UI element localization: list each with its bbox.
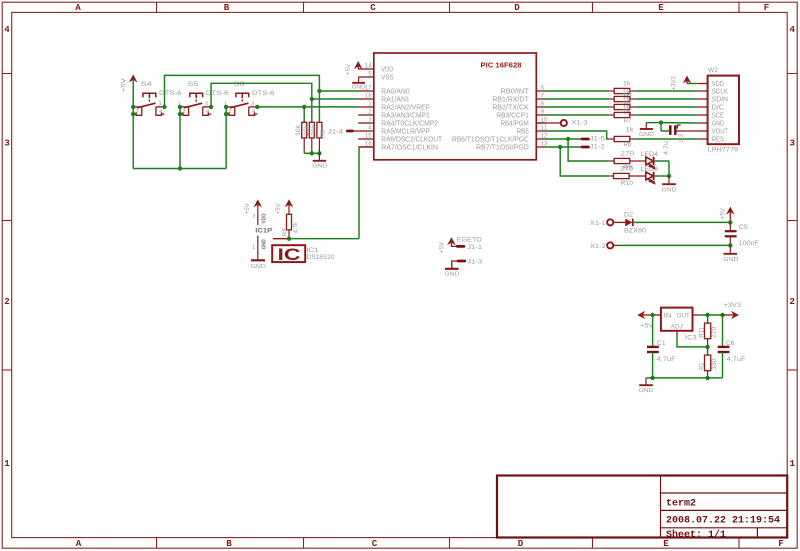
svg-text:DTS-6: DTS-6 <box>206 90 229 97</box>
svg-text:R6: R6 <box>624 142 632 149</box>
svg-text:14: 14 <box>365 64 373 70</box>
svg-text:10k: 10k <box>295 124 302 136</box>
svg-text:C: C <box>372 538 378 549</box>
svg-text:term2: term2 <box>666 499 696 510</box>
svg-text:W2: W2 <box>708 67 718 74</box>
svg-text:3: 3 <box>205 101 208 107</box>
svg-text:2: 2 <box>182 109 185 115</box>
svg-text:2: 2 <box>790 296 796 307</box>
svg-text:C5: C5 <box>739 224 748 231</box>
svg-text:4,7u: 4,7u <box>663 140 670 155</box>
svg-text:GND: GND <box>262 239 268 249</box>
svg-text:IC1P: IC1P <box>255 227 273 234</box>
svg-text:GND: GND <box>444 271 459 277</box>
svg-text:4: 4 <box>790 24 796 35</box>
svg-text:Sheet: 1/1: Sheet: 1/1 <box>666 529 726 541</box>
svg-text:RA0/AN0: RA0/AN0 <box>381 88 409 95</box>
svg-text:RB1/RX/DT: RB1/RX/DT <box>492 96 529 103</box>
svg-text:10k: 10k <box>310 124 317 136</box>
svg-text:3: 3 <box>158 101 161 107</box>
svg-text:IC: IC <box>278 245 301 264</box>
svg-text:VOUT: VOUT <box>712 128 729 135</box>
svg-text:2: 2 <box>136 109 139 115</box>
svg-text:RA4/T0CLK/CMP2: RA4/T0CLK/CMP2 <box>381 120 438 127</box>
svg-text:1: 1 <box>790 458 796 469</box>
svg-text:1k: 1k <box>623 96 632 103</box>
svg-text:B: B <box>226 538 232 549</box>
svg-text:17: 17 <box>365 86 373 92</box>
svg-text:R1: R1 <box>699 362 706 370</box>
svg-text:RB4/PGM: RB4/PGM <box>500 120 528 127</box>
svg-text:GND: GND <box>723 257 738 263</box>
svg-text:RA5/MCLR/VPP: RA5/MCLR/VPP <box>381 128 430 135</box>
svg-text:4,7k: 4,7k <box>292 221 299 233</box>
svg-text:VSS: VSS <box>381 74 393 81</box>
svg-text:+5V: +5V <box>120 77 127 92</box>
svg-text:B: B <box>224 2 230 13</box>
svg-text:100nF: 100nF <box>739 240 759 247</box>
svg-text:DTS-6: DTS-6 <box>252 90 275 97</box>
svg-text:10k: 10k <box>303 124 310 136</box>
svg-text:C: C <box>370 2 376 13</box>
svg-text:1k: 1k <box>623 80 632 87</box>
svg-text:EGETO: EGETO <box>457 236 482 243</box>
svg-text:330: 330 <box>711 358 718 370</box>
svg-text:2008.07.22 21:19:54: 2008.07.22 21:19:54 <box>666 516 780 527</box>
svg-text:S4: S4 <box>141 81 152 88</box>
svg-text:J1-2: J1-2 <box>590 144 605 151</box>
svg-text:E: E <box>658 2 664 13</box>
svg-text:IC1: IC1 <box>307 247 319 254</box>
svg-text:IN: IN <box>664 312 672 319</box>
svg-text:1: 1 <box>4 458 10 469</box>
svg-text:R8: R8 <box>282 228 289 236</box>
svg-text:X1-1: X1-1 <box>590 220 606 227</box>
svg-text:2: 2 <box>4 296 10 307</box>
svg-text:RB5: RB5 <box>517 128 529 135</box>
svg-text:DTS-6: DTS-6 <box>159 90 182 97</box>
svg-text:RES: RES <box>712 136 724 143</box>
svg-text:3: 3 <box>252 214 255 220</box>
svg-text:1k: 1k <box>625 127 634 134</box>
svg-text:GND: GND <box>662 187 677 193</box>
svg-text:RA1/AN1: RA1/AN1 <box>381 96 409 103</box>
svg-text:RB7/T1OSI/PGD: RB7/T1OSI/PGD <box>476 144 529 151</box>
svg-text:+5V: +5V <box>244 202 251 214</box>
svg-text:270: 270 <box>711 326 718 338</box>
svg-text:A: A <box>76 538 82 549</box>
svg-text:VDD: VDD <box>712 81 724 88</box>
svg-text:RA2/AN2/VREF: RA2/AN2/VREF <box>381 104 430 111</box>
svg-text:RB0/INT: RB0/INT <box>500 88 529 95</box>
svg-text:270: 270 <box>620 166 634 173</box>
svg-text:DS18S20: DS18S20 <box>307 254 335 261</box>
svg-text:X1-3: X1-3 <box>572 120 588 127</box>
svg-text:RA3/AN3/CMP1: RA3/AN3/CMP1 <box>381 112 430 119</box>
svg-text:ADJ: ADJ <box>671 324 683 331</box>
svg-text:F: F <box>778 538 784 549</box>
svg-text:SCLK: SCLK <box>712 88 728 95</box>
svg-text:3: 3 <box>790 138 796 149</box>
svg-text:+3V3: +3V3 <box>724 302 742 309</box>
svg-text:J1-5: J1-5 <box>590 136 605 143</box>
svg-text:270: 270 <box>621 150 635 157</box>
svg-text:S6: S6 <box>234 81 245 88</box>
svg-text:D: D <box>518 538 524 549</box>
svg-text:+5V: +5V <box>275 202 282 214</box>
svg-text:+5V: +5V <box>720 207 727 219</box>
svg-text:C3: C3 <box>678 134 685 142</box>
svg-text:RB2/TX/CK: RB2/TX/CK <box>492 104 529 111</box>
svg-text:BZX90: BZX90 <box>624 227 646 234</box>
svg-text:+5V: +5V <box>345 63 352 75</box>
svg-text:D2: D2 <box>624 212 633 219</box>
svg-text:J1-4: J1-4 <box>328 128 343 135</box>
svg-text:R11: R11 <box>699 326 706 338</box>
svg-text:4,7uF: 4,7uF <box>727 356 746 363</box>
svg-text:18: 18 <box>365 94 373 100</box>
svg-text:R10: R10 <box>621 180 634 187</box>
svg-text:GND: GND <box>639 132 654 138</box>
svg-text:GND: GND <box>312 164 327 170</box>
svg-text:GND: GND <box>639 388 654 394</box>
svg-text:1k: 1k <box>623 104 632 111</box>
svg-text:RA7/OSC1/CLKIN: RA7/OSC1/CLKIN <box>381 144 438 151</box>
svg-text:X1-2: X1-2 <box>590 243 606 250</box>
svg-text:A: A <box>75 2 81 13</box>
svg-text:2: 2 <box>229 109 232 115</box>
svg-text:SDIN: SDIN <box>712 96 728 103</box>
svg-text:+3V3: +3V3 <box>670 76 677 91</box>
svg-text:PIC 16F628: PIC 16F628 <box>481 61 522 70</box>
svg-text:GND: GND <box>251 264 266 270</box>
svg-text:RB3/CCP1: RB3/CCP1 <box>496 112 529 119</box>
svg-text:4,7uF: 4,7uF <box>657 356 676 363</box>
svg-text:S5: S5 <box>188 81 199 88</box>
svg-text:3: 3 <box>251 101 254 107</box>
svg-text:J1-3: J1-3 <box>467 258 482 265</box>
svg-text:IC3: IC3 <box>685 334 697 341</box>
svg-text:OUT: OUT <box>677 312 690 319</box>
svg-text:+5V: +5V <box>438 241 445 253</box>
svg-text:GND: GND <box>352 85 366 91</box>
svg-text:VDD: VDD <box>262 214 268 224</box>
svg-text:1k: 1k <box>623 88 632 95</box>
svg-text:15: 15 <box>365 134 373 140</box>
svg-text:1: 1 <box>252 245 255 251</box>
svg-text:LED4: LED4 <box>641 151 659 158</box>
svg-text:RA6/OSC2/CLKOUT: RA6/OSC2/CLKOUT <box>381 136 442 143</box>
svg-text:4: 4 <box>4 24 10 35</box>
svg-text:D: D <box>514 2 520 13</box>
svg-text:RB6/T1OSO/T1CLK/PGC: RB6/T1OSO/T1CLK/PGC <box>452 136 529 143</box>
svg-text:GND: GND <box>712 120 724 127</box>
svg-text:3: 3 <box>4 138 10 149</box>
svg-text:LPH7779: LPH7779 <box>708 147 739 154</box>
svg-text:LED3: LED3 <box>641 166 659 173</box>
svg-text:VDD: VDD <box>381 66 393 73</box>
svg-text:F: F <box>764 2 770 13</box>
svg-text:J1-1: J1-1 <box>467 244 482 251</box>
svg-text:R7: R7 <box>624 118 632 125</box>
svg-text:C6: C6 <box>726 340 735 347</box>
svg-text:C1: C1 <box>657 340 666 347</box>
svg-text:R5: R5 <box>320 130 327 138</box>
svg-text:SCE: SCE <box>712 112 724 119</box>
svg-text:D/C: D/C <box>712 104 724 111</box>
